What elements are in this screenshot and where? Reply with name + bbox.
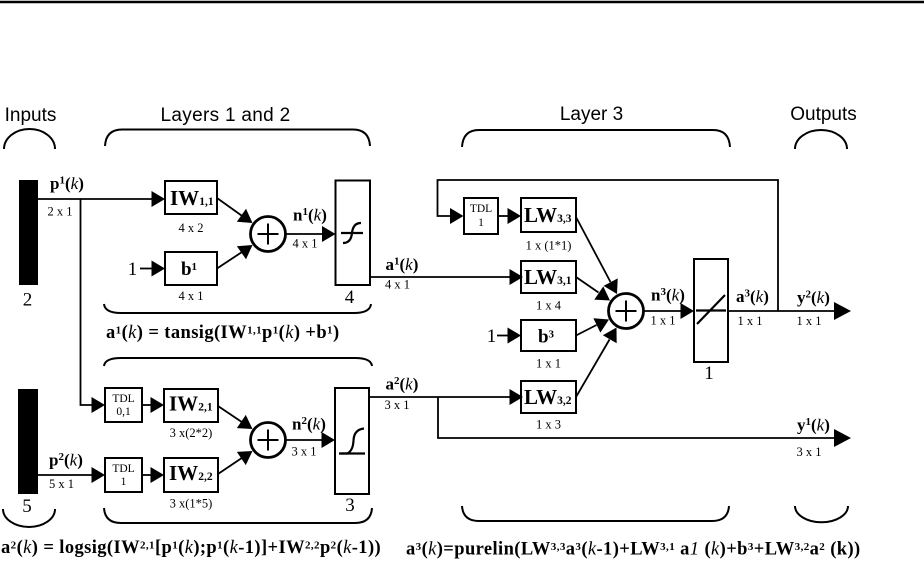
svg-text:y2(k): y2(k)	[797, 288, 830, 307]
svg-text:y1(k): y1(k)	[797, 416, 830, 435]
svg-text:3 x 1: 3 x 1	[292, 445, 317, 459]
svg-text:a1(k): a1(k)	[386, 255, 419, 274]
svg-text:a2(k) = logsig(IW2,1[p1(k);p1(: a2(k) = logsig(IW2,1[p1(k);p1(k-1)]+IW2,…	[1, 538, 381, 558]
svg-text:4 x 1: 4 x 1	[179, 289, 204, 303]
svg-text:1: 1	[704, 363, 714, 384]
svg-text:n3(k): n3(k)	[651, 286, 685, 305]
svg-text:a1(k) = tansig(IW1,1p1(k) +b1): a1(k) = tansig(IW1,1p1(k) +b1)	[106, 323, 340, 343]
svg-text:b3: b3	[538, 327, 555, 348]
svg-text:1 x 1: 1 x 1	[738, 314, 763, 328]
svg-text:3 x(1*5): 3 x(1*5)	[170, 497, 213, 511]
svg-text:IW2,2: IW2,2	[169, 461, 213, 485]
svg-text:4: 4	[345, 287, 355, 308]
svg-text:1: 1	[487, 326, 497, 347]
svg-text:1: 1	[478, 217, 484, 229]
svg-text:4 x 1: 4 x 1	[385, 278, 410, 292]
svg-text:TDL: TDL	[112, 393, 134, 405]
svg-text:3 x 1: 3 x 1	[797, 445, 822, 459]
svg-text:2: 2	[23, 290, 33, 311]
svg-text:3 x(2*2): 3 x(2*2)	[170, 426, 213, 440]
svg-text:5: 5	[22, 496, 32, 517]
svg-text:3: 3	[345, 495, 355, 516]
svg-text:p2(k): p2(k)	[49, 451, 83, 470]
svg-text:Layers 1 and 2: Layers 1 and 2	[161, 105, 291, 126]
svg-text:2 x 1: 2 x 1	[48, 205, 73, 219]
svg-text:1: 1	[128, 259, 138, 280]
svg-text:p1(k): p1(k)	[50, 174, 84, 193]
svg-text:a3(k)=purelin(LW3,3a3(k-1)+LW3: a3(k)=purelin(LW3,3a3(k-1)+LW3,1 a1 (k)+…	[406, 540, 861, 560]
svg-text:TDL: TDL	[470, 203, 492, 215]
svg-text:1 x (1*1): 1 x (1*1)	[526, 239, 572, 253]
svg-text:1 x 4: 1 x 4	[536, 299, 562, 313]
svg-text:LW3,2: LW3,2	[524, 385, 572, 409]
svg-text:5 x 1: 5 x 1	[49, 477, 74, 491]
svg-text:n2(k): n2(k)	[292, 415, 326, 434]
svg-text:TDL: TDL	[112, 463, 134, 475]
svg-text:b1: b1	[181, 259, 197, 280]
svg-text:1 x 3: 1 x 3	[536, 418, 561, 432]
svg-text:a3(k): a3(k)	[736, 287, 769, 306]
svg-text:IW2,1: IW2,1	[169, 392, 213, 416]
svg-text:Inputs: Inputs	[5, 105, 57, 126]
svg-text:LW3,1: LW3,1	[524, 265, 572, 289]
svg-text:Layer 3: Layer 3	[560, 104, 623, 125]
svg-text:0,1: 0,1	[116, 406, 131, 418]
svg-text:3 x 1: 3 x 1	[385, 398, 410, 412]
svg-text:1 x 1: 1 x 1	[536, 357, 561, 371]
svg-text:1 x 1: 1 x 1	[651, 314, 676, 328]
svg-text:n1(k): n1(k)	[293, 206, 327, 225]
svg-text:4 x 1: 4 x 1	[293, 237, 318, 251]
svg-text:1: 1	[121, 476, 127, 488]
svg-text:4 x 2: 4 x 2	[179, 221, 204, 235]
svg-text:1 x 1: 1 x 1	[797, 314, 822, 328]
svg-text:LW3,3: LW3,3	[524, 203, 572, 227]
svg-text:Outputs: Outputs	[790, 104, 857, 125]
svg-text:IW1,1: IW1,1	[170, 186, 214, 210]
svg-text:a2(k): a2(k)	[386, 375, 419, 394]
